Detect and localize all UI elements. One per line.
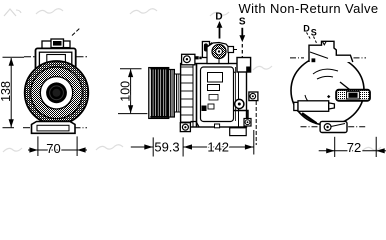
clutch hub xyxy=(174,74,180,112)
dim 100 bottom extension xyxy=(118,113,147,115)
svg-text:59.3: 59.3 xyxy=(154,139,179,154)
flange interior line xyxy=(310,52,328,58)
corner watermark logo xyxy=(4,9,21,16)
pulley hub center xyxy=(53,89,61,97)
flange dark mark xyxy=(312,58,316,62)
left arm xyxy=(294,101,335,112)
front body inner xyxy=(39,52,71,78)
pulley rim hatched xyxy=(25,61,89,125)
svg-text:72: 72 xyxy=(347,140,361,155)
bottom foot xyxy=(320,121,347,132)
top-left ear xyxy=(182,54,202,65)
rear hidden dashed line xyxy=(255,101,257,145)
pulley white ring xyxy=(40,77,72,109)
centerline bottom right view xyxy=(301,126,367,128)
dim 70 extension lines xyxy=(38,136,77,156)
top stem fitting xyxy=(202,42,209,58)
top flange xyxy=(309,41,353,62)
leader dashes xyxy=(307,33,317,44)
dim 100 line and arrows xyxy=(128,69,133,113)
dim 142 arrows xyxy=(184,144,254,149)
svg-text:S: S xyxy=(311,27,317,37)
rear bolt circle xyxy=(234,99,248,119)
rear ear xyxy=(249,92,258,101)
svg-text:100: 100 xyxy=(119,81,133,102)
main body xyxy=(181,64,247,128)
pulley hub black xyxy=(46,82,67,103)
front foot xyxy=(32,122,76,134)
centerline bottom xyxy=(23,127,87,129)
rear head lines xyxy=(238,64,240,127)
svg-text:142: 142 xyxy=(207,139,229,154)
right foot xyxy=(215,124,247,136)
top small fitting xyxy=(228,47,234,53)
right boss xyxy=(336,90,370,101)
D port boss xyxy=(207,43,229,64)
left foot xyxy=(180,122,199,132)
dims 59.3 and 142 extension lines xyxy=(153,130,254,157)
svg-text:138: 138 xyxy=(0,81,13,102)
body ribs xyxy=(181,67,193,122)
watermark squiggles xyxy=(3,9,381,152)
dim 100 top extension xyxy=(120,68,142,70)
dim 138 bottom extension line xyxy=(3,127,15,129)
interior arcs xyxy=(305,69,350,103)
centerline top xyxy=(290,57,366,59)
svg-text:70: 70 xyxy=(46,141,60,156)
dim 138 line and arrows xyxy=(9,58,14,128)
dim 72 arrows xyxy=(319,148,386,153)
svg-text:S: S xyxy=(239,17,246,28)
strut xyxy=(302,113,317,123)
front body neck xyxy=(47,55,66,66)
front foot inner xyxy=(37,125,69,131)
dim 70 line and arrows xyxy=(28,147,87,152)
front body outer xyxy=(36,48,76,78)
front housing lines xyxy=(192,64,194,127)
dim 138 top extension line xyxy=(3,56,25,58)
side pulley xyxy=(149,68,169,119)
front connector xyxy=(42,39,70,49)
svg-text:D: D xyxy=(303,24,310,34)
diamond mark xyxy=(327,95,330,98)
body patch rects xyxy=(208,73,223,83)
rear bottom ear xyxy=(244,119,251,127)
centerline top xyxy=(24,56,88,58)
pulley face checkered xyxy=(31,67,83,119)
dim 59.3 arrow xyxy=(131,144,153,149)
svg-text:D: D xyxy=(215,12,222,23)
svg-text:With Non-Return Valve: With Non-Return Valve xyxy=(239,1,379,16)
body centre panel xyxy=(201,67,234,122)
connector leader dashes xyxy=(72,28,80,36)
clutch plate xyxy=(169,70,175,118)
rear body circle xyxy=(291,56,364,125)
dim 72 extension lines xyxy=(335,137,377,157)
